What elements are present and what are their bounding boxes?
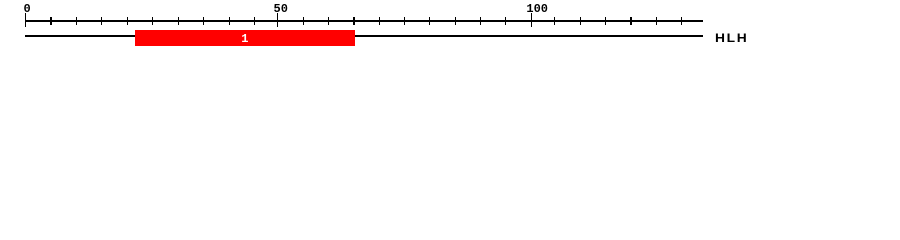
minor tick at 55 — [303, 17, 304, 25]
ruler label 50 — [274, 4, 288, 15]
minor tick at 80 — [429, 17, 430, 25]
minor tick at 115 — [605, 17, 606, 25]
ruler label 100 — [526, 4, 548, 15]
minor tick at 105 — [554, 17, 555, 25]
major tick at 50 — [277, 13, 279, 27]
minor tick at 110 — [580, 17, 581, 25]
sequence line — [25, 35, 703, 37]
minor tick at 45 — [254, 17, 255, 25]
minor tick at 30 — [178, 17, 179, 25]
minor tick at 85 — [455, 17, 456, 25]
ruler label 0 — [24, 4, 31, 15]
ruler line — [25, 20, 703, 22]
minor tick at 60 — [328, 17, 329, 25]
domain box label 1 — [235, 35, 255, 44]
minor tick at 70 — [379, 17, 380, 25]
major tick at 0 — [25, 13, 27, 27]
minor tick at 65 — [353, 17, 354, 25]
minor tick at 25 — [152, 17, 153, 25]
minor tick at 10 — [76, 17, 77, 25]
minor tick at 120 — [630, 17, 631, 25]
minor tick at 95 — [505, 17, 506, 25]
minor tick at 15 — [101, 17, 102, 25]
minor tick at 75 — [404, 17, 405, 25]
minor tick at 35 — [203, 17, 204, 25]
domain name HLH — [715, 35, 748, 44]
minor tick at 130 — [681, 17, 682, 25]
minor tick at 20 — [127, 17, 128, 25]
minor tick at 5 — [50, 17, 51, 25]
minor tick at 125 — [656, 17, 657, 25]
minor tick at 90 — [480, 17, 481, 25]
domain box 1 (HLH) — [135, 30, 355, 46]
minor tick at 40 — [229, 17, 230, 25]
major tick at 100 — [531, 13, 533, 27]
